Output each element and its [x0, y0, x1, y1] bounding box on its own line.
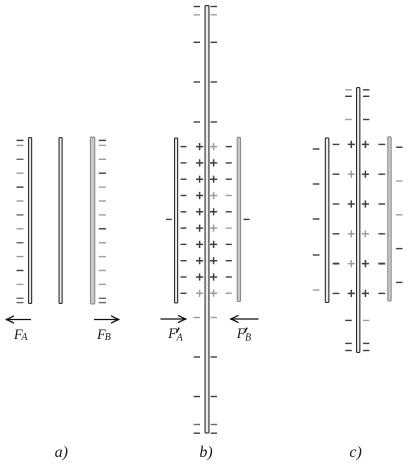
single minus sign outside plate B (fig b) — [243, 218, 249, 220]
label F'_A — [167, 326, 184, 343]
svg-text:B: B — [105, 332, 111, 343]
charge column: plus signs on right side of rod (fig c) — [362, 141, 369, 297]
svg-text:b): b) — [199, 444, 212, 461]
charge column: minus signs on left side of rod outside plates (fig b) — [194, 7, 200, 434]
force arrow F'_B (points left) — [231, 316, 259, 323]
charge column: plus signs on right side of rod (fig b) — [210, 143, 217, 297]
charge column: minus signs on outer face of plate A (fig c) — [313, 149, 320, 290]
charge column: minus signs on inner face of plate A (fig b) — [181, 147, 187, 294]
charge column: minus signs on outer face of plate B (fig a) — [99, 140, 106, 302]
svg-text:c): c) — [349, 444, 361, 461]
svg-text:A: A — [20, 332, 28, 343]
charge column: minus signs on outer face of plate B (fig c) — [396, 147, 402, 282]
svg-text:A: A — [176, 332, 184, 343]
force arrow F_B (points right) — [94, 316, 119, 323]
plate A (fig a, left plate) — [29, 138, 32, 304]
charge column: minus signs on right side of rod outside plates (fig c) — [363, 90, 369, 351]
charge column: minus signs on left side of rod outside plates (fig c) — [345, 90, 352, 351]
charge column: minus signs on inner face of plate A (fig c) — [333, 144, 340, 293]
plate A (fig b, left plate) — [175, 138, 178, 303]
svg-text:F: F — [167, 326, 177, 342]
charge column: plus signs on left side of rod (fig c) — [348, 141, 355, 297]
label F'_B — [236, 326, 251, 343]
svg-text:B: B — [245, 332, 251, 343]
charge column: minus signs on outer face of plate A (fig a) — [17, 140, 24, 302]
charge column: minus signs on inner face of plate B (fig b) — [226, 147, 232, 294]
charge column: plus signs on left side of rod (fig b) — [196, 143, 203, 297]
plate B (fig b, right plate) — [237, 137, 240, 301]
force arrow F'_A (points right) — [161, 316, 187, 323]
plate A (fig c, left plate) — [325, 138, 329, 303]
rod (fig b, long charged rod through plates) — [205, 6, 209, 433]
charge column: minus signs on inner face of plate B (fig c) — [378, 144, 385, 293]
single minus sign outside plate A (fig b) — [166, 218, 172, 220]
rod (fig c, charged rod through plates) — [357, 88, 360, 353]
charge column: minus signs on right side of rod outside plates (fig b) — [211, 7, 217, 434]
force arrow F_A (points left) — [6, 316, 31, 323]
svg-text:a): a) — [55, 444, 68, 461]
middle plate (fig a, uncharged) — [59, 138, 62, 304]
plate B (fig a, right plate) — [90, 137, 94, 304]
plate B (fig c, right plate) — [388, 137, 391, 301]
